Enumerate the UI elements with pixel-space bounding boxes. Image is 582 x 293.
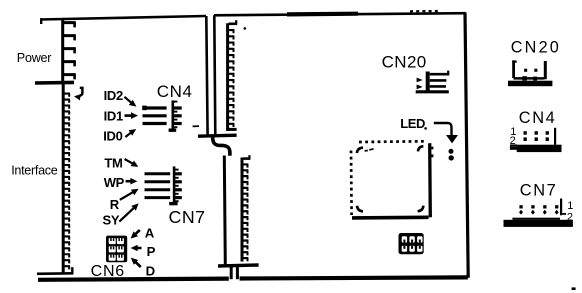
wire bottom-left connector base line bbox=[37, 267, 73, 274]
svg-text:Interface: Interface bbox=[11, 163, 58, 177]
connector J-power edge fingers bbox=[63, 19, 76, 82]
svg-text:ID0: ID0 bbox=[103, 128, 122, 143]
wire slot bottom bar bbox=[193, 126, 237, 136]
wire lower slot left leg bbox=[230, 267, 233, 279]
label D bbox=[146, 264, 156, 279]
svg-text:1: 1 bbox=[567, 200, 573, 212]
label CN6 (board) bbox=[91, 263, 125, 280]
connector mid edge fingers lower bbox=[242, 155, 250, 261]
svg-text:CN20: CN20 bbox=[511, 38, 561, 56]
connector CN4 jumper block bbox=[142, 100, 182, 130]
arrow TM bbox=[125, 159, 139, 167]
connector mid edge fingers upper bbox=[228, 20, 237, 131]
label CN7 (board) bbox=[169, 207, 206, 227]
svg-text:WP: WP bbox=[104, 175, 125, 190]
label ID0 bbox=[103, 128, 122, 143]
label SY bbox=[103, 212, 120, 227]
speck near mid connector bbox=[244, 27, 247, 30]
connector CN4 top view (detail) bbox=[510, 126, 562, 152]
wire card slot left line bbox=[206, 16, 207, 135]
connector CN6 block bbox=[106, 236, 127, 263]
label Power bbox=[17, 51, 52, 65]
svg-text:A: A bbox=[145, 225, 155, 240]
svg-text:CN4: CN4 bbox=[519, 109, 557, 127]
connector small header block bbox=[399, 233, 424, 254]
svg-text:Power: Power bbox=[17, 51, 52, 65]
label CN7 (detail) bbox=[520, 181, 558, 199]
arrow WP bbox=[126, 178, 138, 185]
wire lower slot right leg bbox=[236, 267, 239, 279]
label LED bbox=[400, 116, 425, 131]
connector CN7 top view (detail) bbox=[504, 199, 574, 227]
wire board top edge left segment bbox=[40, 16, 206, 24]
arrow ID2 bbox=[124, 97, 136, 107]
connector J-interface edge fingers bbox=[63, 82, 70, 273]
svg-text:CN20: CN20 bbox=[382, 53, 427, 72]
label ID2 bbox=[104, 88, 123, 103]
svg-text:ID2: ID2 bbox=[104, 88, 123, 103]
svg-text:CN7: CN7 bbox=[520, 181, 558, 199]
svg-text:LED: LED bbox=[400, 116, 425, 131]
arrow ID0 bbox=[125, 129, 136, 137]
svg-text:SY: SY bbox=[103, 212, 120, 227]
arrow SY bbox=[119, 203, 138, 221]
arrow D bbox=[131, 258, 141, 267]
wire board top edge thick overlay bbox=[287, 12, 358, 17]
IC U1 QFP outline bbox=[351, 141, 433, 218]
svg-text:D: D bbox=[146, 264, 156, 279]
wire board bottom edge right part bbox=[240, 277, 468, 278]
label CN20 (detail) bbox=[511, 38, 561, 56]
connector CN7 jumper block bbox=[145, 166, 182, 204]
wire card slot right line bbox=[214, 15, 215, 134]
label Interface bbox=[11, 163, 58, 177]
label A bbox=[145, 225, 155, 240]
arrow P bbox=[131, 245, 142, 252]
arrow LED pointer bbox=[434, 123, 458, 143]
wire board right edge bbox=[465, 13, 468, 278]
wire lower slot line bbox=[224, 156, 225, 265]
wire board top edge dotted segment bbox=[410, 10, 441, 13]
LED pads bbox=[449, 149, 454, 161]
svg-text:CN7: CN7 bbox=[169, 207, 206, 227]
svg-text:P: P bbox=[147, 244, 156, 259]
svg-text:CN6: CN6 bbox=[91, 263, 125, 280]
label CN4 (board) bbox=[157, 82, 193, 101]
label R bbox=[110, 197, 120, 212]
svg-text:TM: TM bbox=[104, 156, 122, 171]
label CN20 (board) bbox=[382, 53, 427, 72]
wire board bottom edge left part bbox=[38, 279, 229, 280]
wire contact finger hook bbox=[213, 137, 230, 156]
speck bottom-right page artifact bbox=[572, 287, 576, 290]
label P bbox=[147, 244, 156, 259]
label TM bbox=[104, 156, 122, 171]
connector CN20 side view (detail) bbox=[508, 60, 552, 86]
label CN4 (detail) bbox=[519, 109, 557, 127]
svg-text:R: R bbox=[110, 197, 120, 212]
wire lower slot crossbar bbox=[218, 265, 259, 266]
connector CN20 header (board) bbox=[416, 71, 450, 93]
wire power/interface divider line bbox=[35, 81, 74, 85]
arrow R bbox=[120, 189, 139, 200]
speck after LED label bbox=[424, 127, 427, 130]
label ID1 bbox=[104, 109, 123, 124]
svg-text:CN4: CN4 bbox=[157, 82, 193, 101]
wire board top edge right segment bbox=[214, 13, 466, 15]
arrow A bbox=[131, 230, 140, 239]
pin-1 indicator arrow (interface) bbox=[74, 88, 82, 101]
svg-text:ID1: ID1 bbox=[104, 109, 123, 124]
label WP bbox=[104, 175, 125, 190]
arrow ID1 bbox=[125, 112, 139, 119]
